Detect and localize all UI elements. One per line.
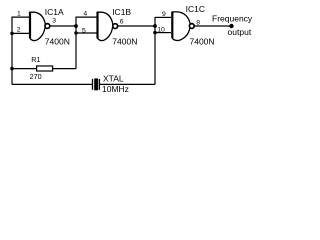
svg-text:10MHz: 10MHz	[102, 84, 129, 94]
wire XTAL right lead	[100, 83, 155, 85]
wire pin1 input IC1A	[12, 16, 30, 18]
nand gate IC1A body	[30, 12, 45, 40]
crystal XTAL right plate	[98, 79, 100, 90]
svg-text:2: 2	[17, 27, 21, 34]
wire IC1B output	[118, 25, 155, 27]
wire IC1C output	[194, 25, 231, 27]
wire pin9 input IC1C	[155, 16, 171, 18]
svg-text:10: 10	[157, 27, 165, 34]
svg-text:Frequency: Frequency	[212, 13, 253, 23]
svg-text:XTAL: XTAL	[103, 73, 124, 83]
wire node B to R1 right lead	[53, 68, 76, 70]
svg-text:6: 6	[120, 19, 124, 26]
nand gate IC1B body	[98, 12, 113, 40]
crystal XTAL body	[94, 78, 98, 90]
node A junction at R1	[10, 67, 14, 71]
wire node B vertical	[75, 17, 77, 69]
node B junction at output wire	[74, 24, 78, 28]
output terminal dot	[229, 24, 233, 28]
svg-text:IC1C: IC1C	[186, 4, 205, 14]
wire node C vertical	[154, 17, 156, 84]
svg-text:7400N: 7400N	[112, 36, 137, 46]
wire node A to XTAL left	[12, 83, 92, 85]
nand gate IC1A input bar	[29, 12, 31, 39]
svg-text:5: 5	[82, 27, 86, 34]
wire node A to R1 left lead	[12, 68, 37, 70]
wire pin4 input IC1B	[76, 16, 97, 18]
node C junction at output wire	[153, 24, 157, 28]
svg-text:R1: R1	[31, 55, 40, 64]
nand gate IC1B input bar	[96, 12, 98, 39]
svg-text:9: 9	[162, 11, 166, 18]
svg-text:270: 270	[30, 72, 42, 81]
svg-text:7400N: 7400N	[190, 37, 215, 47]
nand gate IC1A output bubble	[45, 24, 50, 29]
svg-text:1: 1	[17, 11, 21, 18]
svg-text:8: 8	[196, 19, 200, 26]
wire pin10 input IC1C	[155, 32, 171, 34]
svg-text:4: 4	[83, 10, 87, 17]
wire node A vertical	[11, 17, 13, 85]
svg-text:output: output	[228, 27, 252, 37]
node A junction at pin2	[10, 32, 14, 36]
svg-text:3: 3	[52, 18, 56, 25]
wire IC1A output	[50, 25, 76, 27]
node C junction at pin10	[153, 31, 157, 35]
resistor R1 box	[37, 66, 53, 71]
wire pin5 input IC1B	[76, 32, 97, 34]
nand gate IC1C body	[172, 12, 190, 41]
nand gate IC1C input bar	[171, 12, 173, 38]
crystal XTAL left plate	[92, 79, 94, 90]
node B junction at pin5	[74, 31, 78, 35]
svg-text:IC1B: IC1B	[112, 7, 131, 17]
nand gate IC1B output bubble	[113, 24, 118, 29]
nand gate IC1C output bubble	[189, 24, 194, 29]
wire pin2 input IC1A	[12, 32, 30, 34]
svg-text:IC1A: IC1A	[45, 7, 64, 17]
svg-text:7400N: 7400N	[45, 36, 70, 46]
